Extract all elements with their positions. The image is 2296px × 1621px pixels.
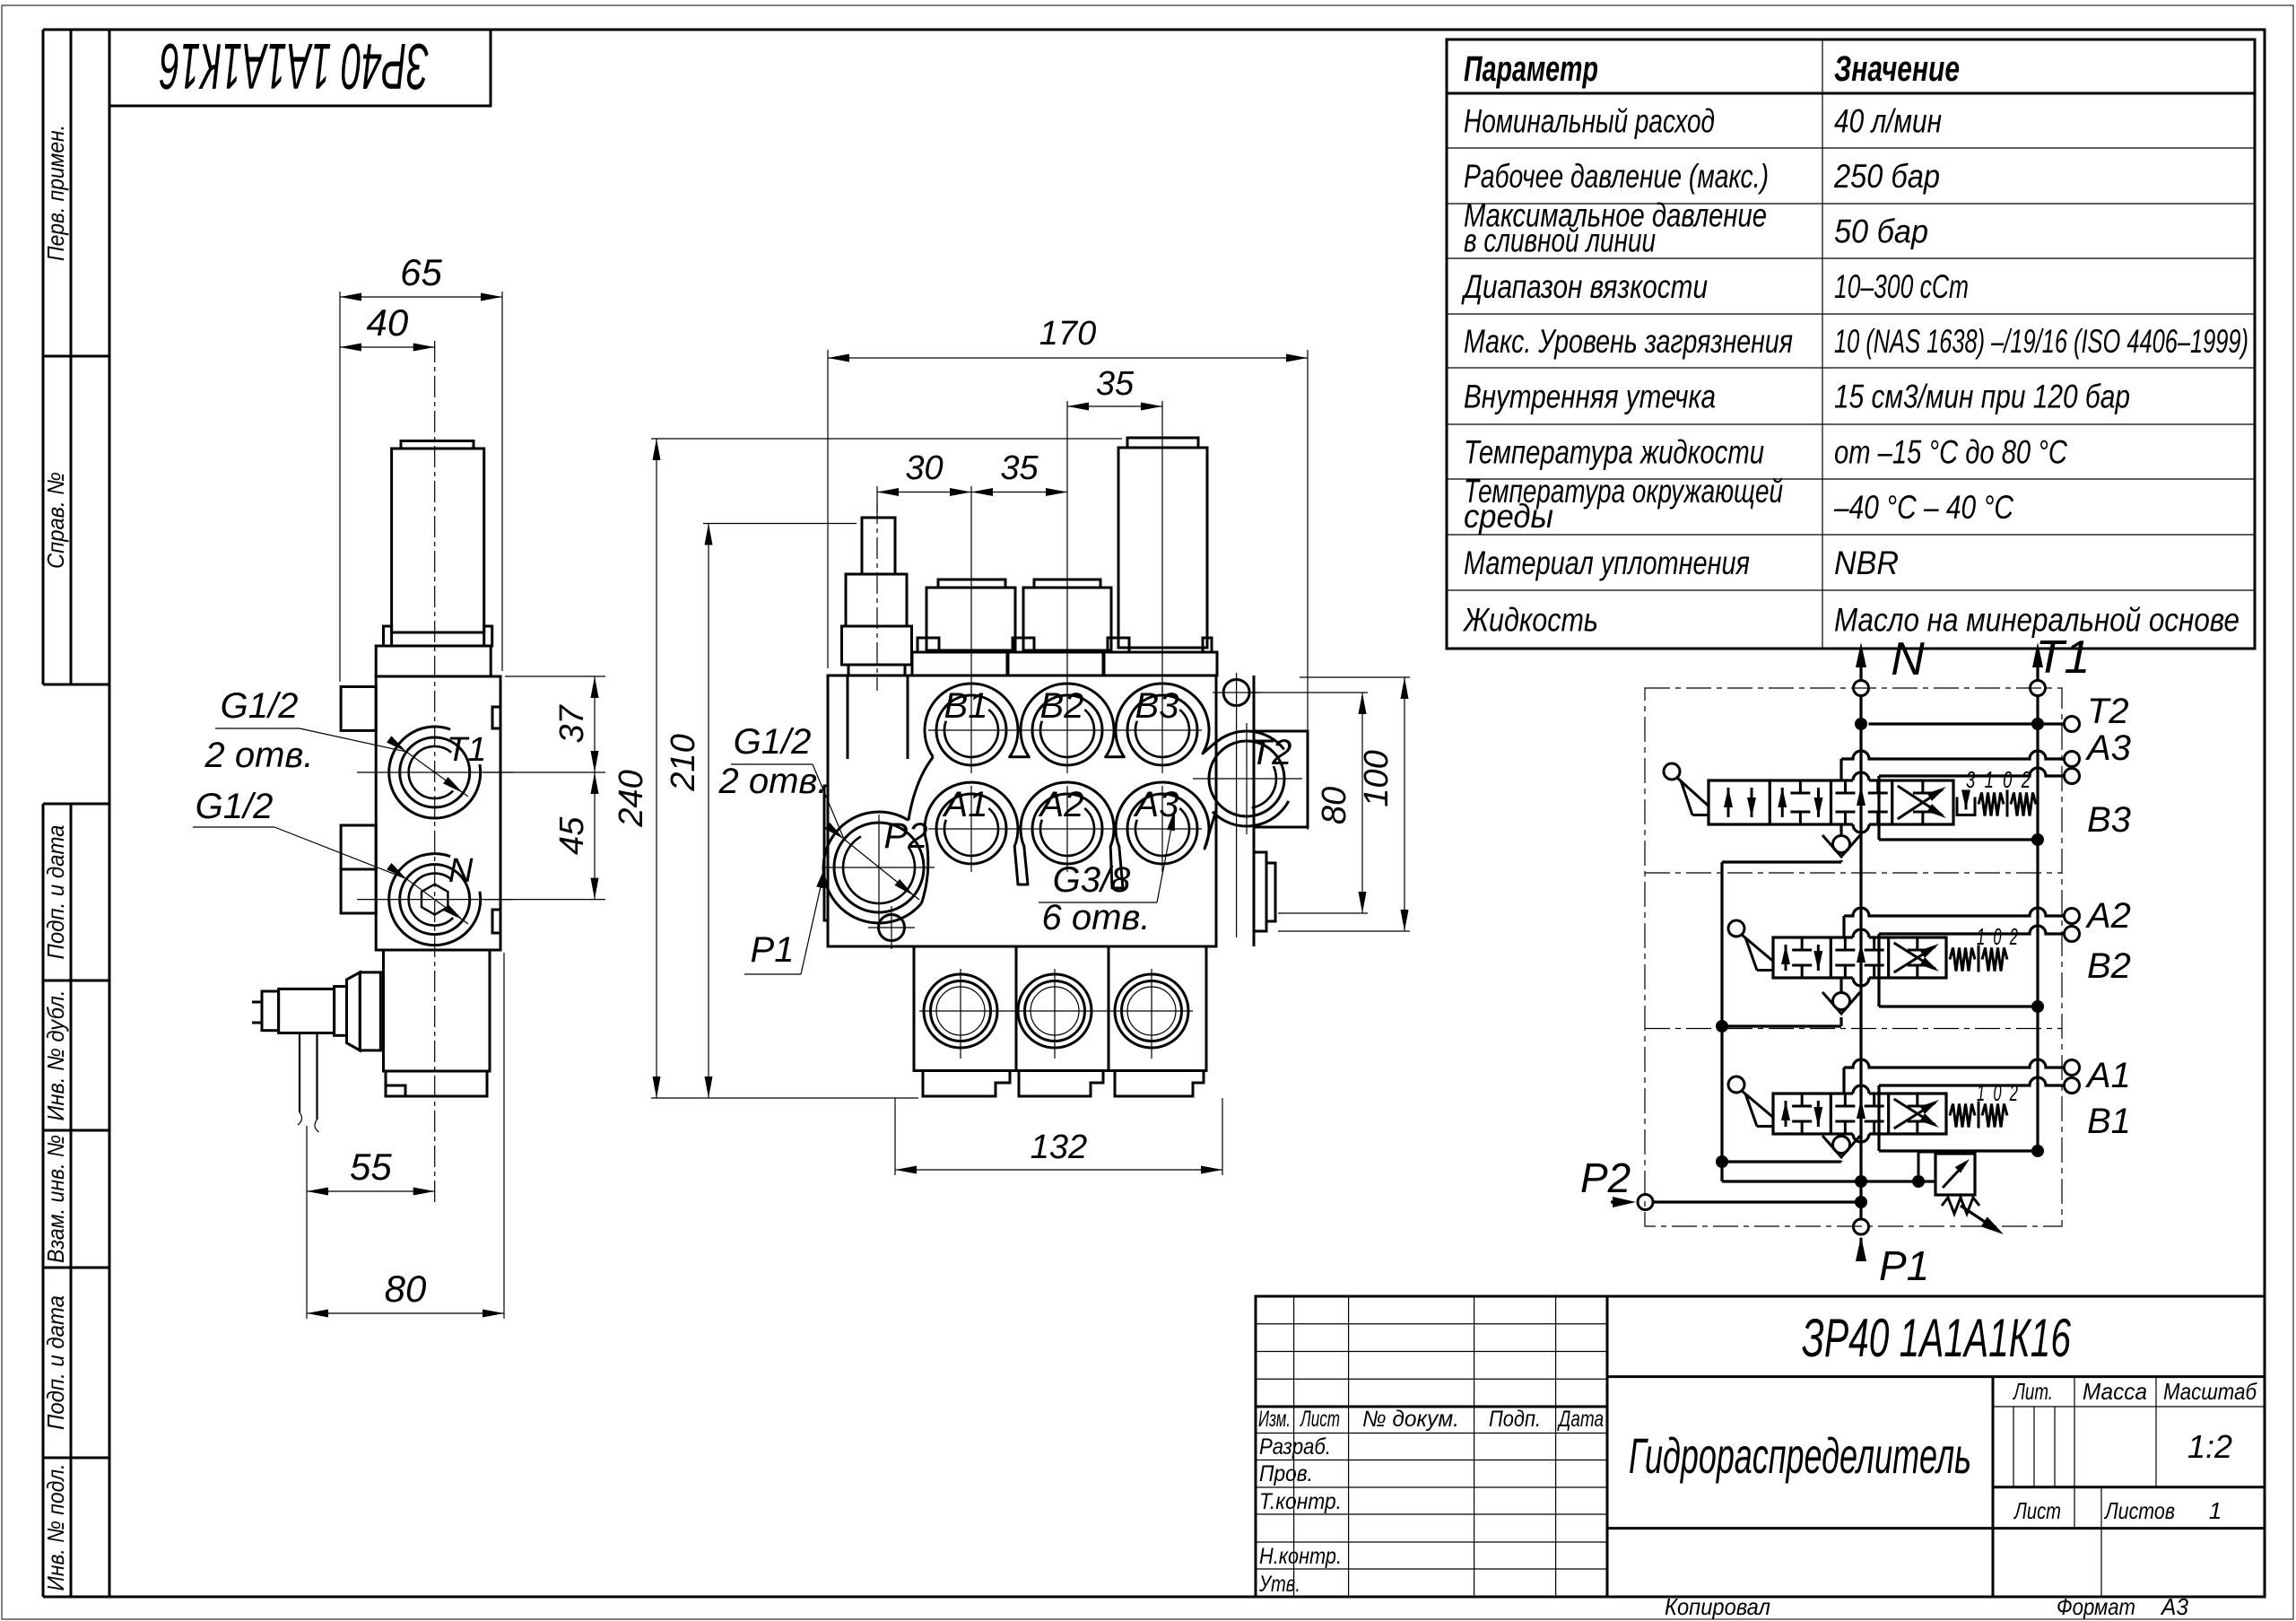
check valve section 1 <box>1839 1134 1842 1137</box>
dimension 100 right <box>1300 676 1410 678</box>
svg-text:Значение: Значение <box>1834 49 1960 89</box>
svg-text:Подп. и дата: Подп. и дата <box>42 1295 69 1430</box>
node A1 circles <box>2065 1060 2080 1076</box>
schematic boundary (dash-dot) <box>1645 688 2062 1226</box>
svg-text:40: 40 <box>366 301 408 344</box>
svg-text:Т.контр.: Т.контр. <box>1259 1489 1342 1514</box>
side view connector <box>279 989 335 1033</box>
hex plug in N port <box>422 885 448 915</box>
wire: left supply rail <box>1720 862 1723 1181</box>
svg-text:240: 240 <box>613 770 650 827</box>
svg-text:170: 170 <box>1039 315 1096 353</box>
svg-text:1:2: 1:2 <box>2187 1428 2232 1465</box>
svg-text:45: 45 <box>553 816 591 855</box>
label box Перв. примен. <box>42 30 45 356</box>
svg-text:55: 55 <box>350 1146 392 1188</box>
svg-text:Температура жидкости: Температура жидкости <box>1464 434 1764 471</box>
connector wires <box>299 1033 300 1113</box>
svg-text:Рабочее давление (макс.): Рабочее давление (макс.) <box>1464 158 1769 195</box>
svg-text:37: 37 <box>553 704 591 744</box>
svg-text:Изм.: Изм. <box>1258 1407 1291 1432</box>
svg-text:10–300 сСт: 10–300 сСт <box>1834 268 1969 305</box>
label box Справ. № <box>42 356 45 684</box>
dimensions 30 35 <box>876 486 878 513</box>
bottom ports <box>924 974 997 1048</box>
port N (side view) <box>400 865 470 935</box>
svg-text:в сливной линии: в сливной линии <box>1464 222 1656 259</box>
port T2 <box>1209 741 1284 816</box>
adjuster boss into body <box>847 676 849 759</box>
svg-text:P2: P2 <box>884 816 928 856</box>
label box Подп. и дата <box>42 804 45 980</box>
svg-text:№ докум.: № докум. <box>1362 1407 1459 1432</box>
port A2 <box>1032 794 1102 864</box>
svg-text:Гидрораспределитель: Гидрораспределитель <box>1629 1427 1971 1484</box>
wire: N / P1 vertical line <box>1859 696 1862 1220</box>
check valve section 2 <box>1839 978 1842 994</box>
svg-text:35: 35 <box>1000 449 1039 487</box>
svg-text:10 (NAS 1638) –/19/16 (ISO 440: 10 (NAS 1638) –/19/16 (ISO 4406–1999) <box>1834 323 2248 360</box>
svg-text:Взам. инв. №: Взам. инв. № <box>42 1135 69 1263</box>
svg-text:Подп. и дата: Подп. и дата <box>42 825 69 960</box>
machined face outline: A row <box>925 782 1216 888</box>
svg-text:30: 30 <box>905 449 943 487</box>
wire: B3 line <box>1879 768 2065 776</box>
svg-text:2 отв.: 2 отв. <box>204 736 314 775</box>
relief valve <box>1935 1154 1975 1195</box>
svg-text:65: 65 <box>400 251 442 293</box>
dimension 40 <box>340 346 435 348</box>
port A3 <box>1127 794 1197 864</box>
svg-text:50 бар: 50 бар <box>1834 214 1928 250</box>
wire: T1 vertical rail <box>2036 696 2039 1152</box>
svg-text:1: 1 <box>2209 1497 2222 1524</box>
svg-text:A3: A3 <box>2085 728 2131 768</box>
cap feet <box>918 638 939 652</box>
svg-text:B3: B3 <box>2087 800 2131 840</box>
svg-text:Лит.: Лит. <box>2013 1378 2053 1405</box>
directional valve section 3 (top, with float position) <box>1709 780 1953 824</box>
port B3 <box>1127 695 1197 765</box>
wire: pump rail to relief <box>1722 1180 1935 1182</box>
svg-text:1 0 2: 1 0 2 <box>1977 1079 2018 1106</box>
cap 1 <box>938 580 1005 588</box>
svg-text:Справ. №: Справ. № <box>42 472 69 569</box>
svg-text:от –15 °С до 80 °С: от –15 °С до 80 °С <box>1834 434 2067 471</box>
svg-text:NBR: NBR <box>1834 545 1899 581</box>
svg-text:P2: P2 <box>1580 1155 1631 1201</box>
svg-text:Подп.: Подп. <box>1489 1407 1541 1432</box>
wire: B2 wrap to tank rail <box>1877 934 1880 1007</box>
pedestals <box>912 652 1007 675</box>
svg-text:Масштаб: Масштаб <box>2163 1378 2257 1405</box>
label box Инв. № дубл. <box>42 980 45 1130</box>
machined face outline: T2 boss arcs <box>1213 731 1284 749</box>
bottom plates <box>923 1071 1010 1097</box>
svg-text:T2: T2 <box>2087 692 2129 731</box>
svg-text:G1/2: G1/2 <box>196 787 274 826</box>
machined face outline: B row <box>925 684 1216 757</box>
bolt hole top right <box>1223 680 1249 706</box>
cap 2 <box>1034 580 1100 588</box>
reversed designation box <box>109 30 491 106</box>
svg-text:Жидкость: Жидкость <box>1462 602 1598 639</box>
wire: B1 line <box>1879 1077 2065 1085</box>
port B2 <box>1032 695 1102 765</box>
svg-text:Пров.: Пров. <box>1259 1461 1313 1486</box>
svg-text:Диапазон вязкости: Диапазон вязкости <box>1461 268 1708 305</box>
label box Подп. и дата <box>42 1268 45 1458</box>
wire jump over valve edge <box>1853 936 1869 940</box>
dimension 240 <box>651 438 1122 440</box>
svg-text:Масса: Масса <box>2083 1378 2147 1405</box>
side view main body <box>376 676 500 950</box>
check valve <box>1833 836 1850 853</box>
T2 boss <box>1254 731 1308 827</box>
svg-text:–40 °С – 40 °С: –40 °С – 40 °С <box>1833 489 2013 526</box>
svg-text:Копировал: Копировал <box>1665 1593 1770 1620</box>
svg-text:35: 35 <box>1096 365 1135 403</box>
dimension 210 <box>703 523 857 525</box>
svg-text:B3: B3 <box>1135 686 1179 726</box>
svg-text:P1: P1 <box>751 930 795 970</box>
svg-text:2 отв.: 2 отв. <box>718 762 828 801</box>
wire jump over valve edge <box>1853 779 1869 783</box>
side view relief cap <box>401 441 474 449</box>
svg-text:G3/8: G3/8 <box>1053 860 1131 900</box>
P2 boss outline <box>823 812 921 923</box>
relief adjuster stack <box>862 518 895 574</box>
svg-text:Макс. Уровень загрязнения: Макс. Уровень загрязнения <box>1464 323 1793 360</box>
dimension 80 right <box>1250 692 1368 693</box>
wire: T2 connection <box>1869 722 2065 725</box>
port P2 <box>834 823 924 912</box>
left edge step near P2 <box>824 786 828 920</box>
svg-text:Формат: Формат <box>2057 1593 2135 1620</box>
wire: A3 work line <box>1839 759 1842 780</box>
svg-text:A2: A2 <box>2085 896 2131 936</box>
relief valve pilot loop <box>1918 1152 1920 1181</box>
svg-text:Материал уплотнения: Материал уплотнения <box>1464 545 1750 581</box>
wire jump over valve edge <box>1853 1092 1869 1096</box>
port T1 (side view) <box>400 737 470 807</box>
dimension 37 and 45 <box>505 675 605 677</box>
svg-text:B2: B2 <box>1040 686 1084 726</box>
svg-text:среды: среды <box>1464 498 1553 535</box>
svg-text:P1: P1 <box>1879 1242 1929 1289</box>
svg-text:Лист: Лист <box>2013 1497 2061 1524</box>
svg-text:132: 132 <box>1031 1129 1087 1166</box>
dimension 170 <box>827 350 829 668</box>
svg-text:40 л/мин: 40 л/мин <box>1834 103 1942 140</box>
directional valve section 1 (bottom) <box>1773 1094 1946 1134</box>
svg-text:ЗР40 1А1А1К16: ЗР40 1А1А1К16 <box>159 30 429 101</box>
svg-text:100: 100 <box>1358 750 1396 806</box>
dimension 55 <box>306 1126 308 1319</box>
port A1 <box>936 794 1006 864</box>
node A3 circles <box>2065 752 2080 767</box>
node P1 bottom circle <box>1854 1219 1869 1234</box>
label box Инв. № подл. <box>42 1458 45 1597</box>
relief cylinder (front) <box>1127 438 1198 448</box>
section divider lines <box>1645 872 2062 874</box>
svg-text:G1/2: G1/2 <box>221 686 299 726</box>
relief drain arrow <box>1961 1206 1993 1227</box>
lever <box>1728 920 1744 937</box>
svg-text:15 см3/мин при 120 бар: 15 см3/мин при 120 бар <box>1834 379 2130 415</box>
wire: A2 work line <box>1842 916 1845 937</box>
svg-text:A2: A2 <box>1039 785 1084 824</box>
svg-text:Дата: Дата <box>1557 1407 1604 1432</box>
svg-text:3 1 0 2: 3 1 0 2 <box>1966 766 2031 793</box>
wire: A1 work line <box>1842 1068 1845 1094</box>
svg-text:B2: B2 <box>2087 946 2131 986</box>
dimension 132 <box>894 1098 896 1175</box>
svg-text:G1/2: G1/2 <box>734 722 812 762</box>
lever <box>1664 763 1680 780</box>
svg-text:6 отв.: 6 отв. <box>1042 898 1151 937</box>
node P2 circle <box>1638 1195 1653 1210</box>
node A2 circles <box>2065 909 2080 924</box>
check valve <box>1833 993 1850 1010</box>
title block <box>1256 1296 2265 1597</box>
port B1 <box>936 695 1006 765</box>
check valve section 3 <box>1839 824 1842 837</box>
svg-text:Утв.: Утв. <box>1258 1572 1300 1597</box>
lever <box>1728 1076 1744 1093</box>
svg-text:Лист: Лист <box>1300 1407 1340 1432</box>
svg-text:N: N <box>1891 633 1925 685</box>
svg-text:Листов: Листов <box>2103 1497 2175 1524</box>
svg-text:А3: А3 <box>2160 1593 2188 1620</box>
svg-text:A1: A1 <box>943 785 988 824</box>
svg-text:80: 80 <box>385 1268 427 1310</box>
svg-text:B1: B1 <box>944 686 988 726</box>
svg-text:Н.контр.: Н.контр. <box>1259 1544 1342 1569</box>
svg-text:1 0 2: 1 0 2 <box>1977 923 2018 950</box>
svg-text:Инв. № дубл.: Инв. № дубл. <box>42 990 69 1121</box>
wire: B3 wrap to tank rail <box>1877 776 1880 840</box>
wire: B2 line <box>1879 926 2065 934</box>
svg-text:B1: B1 <box>2087 1102 2131 1141</box>
svg-text:210: 210 <box>665 734 702 791</box>
neck connections <box>909 757 934 821</box>
svg-text:80: 80 <box>1316 787 1353 824</box>
node T2 circle <box>2065 717 2080 732</box>
dimension 35 top <box>1066 401 1068 693</box>
svg-text:ЗР40 1А1А1К16: ЗР40 1А1А1К16 <box>1802 1308 2071 1368</box>
svg-text:Разраб.: Разраб. <box>1259 1434 1331 1460</box>
svg-text:Параметр: Параметр <box>1464 49 1598 89</box>
svg-text:Инв. № подл.: Инв. № подл. <box>42 1464 69 1591</box>
svg-text:Внутренняя утечка: Внутренняя утечка <box>1464 379 1716 415</box>
bolt hole bottom left <box>879 915 905 941</box>
label box Взам. инв. № <box>42 1130 45 1268</box>
svg-text:A1: A1 <box>2085 1056 2131 1095</box>
directional valve section 2 <box>1773 937 1946 978</box>
svg-text:250 бар: 250 бар <box>1833 158 1940 195</box>
wire: B1 wrap to tank rail <box>1877 1085 1880 1151</box>
bottom outlet block <box>914 946 1206 1071</box>
svg-text:N: N <box>448 852 474 890</box>
node N top circle <box>1854 681 1869 696</box>
front view main body <box>828 675 1216 946</box>
dimension 80 (side) <box>503 953 505 1319</box>
dimension 65 <box>339 292 341 682</box>
wire: P2 line <box>1653 1200 1861 1203</box>
svg-text:T1: T1 <box>2036 632 2091 684</box>
svg-text:T1: T1 <box>447 731 486 769</box>
parameter table <box>1447 39 2255 649</box>
svg-text:Перв. примен.: Перв. примен. <box>42 125 69 261</box>
check valve <box>1833 1137 1850 1154</box>
svg-text:Номинальный расход: Номинальный расход <box>1464 103 1715 140</box>
side view of valve <box>434 341 436 1202</box>
side view solenoid block <box>384 950 491 1071</box>
node T1 top circle <box>2031 681 2046 696</box>
